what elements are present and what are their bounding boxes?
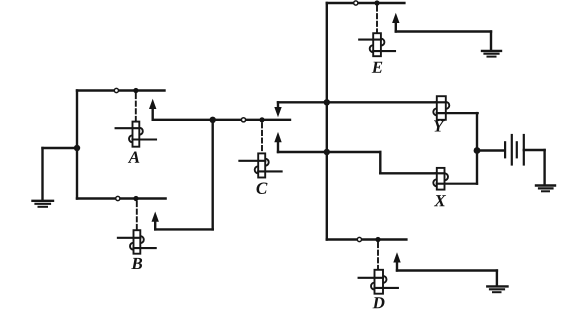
wire junction to X (476, 151, 478, 184)
contact A open circle (114, 88, 118, 92)
arrow A (up) (149, 99, 156, 120)
wire B branch right segment (121, 197, 166, 199)
wire A branch left segment (77, 89, 114, 91)
wire junction to battery (477, 149, 505, 151)
dashed link C (261, 123, 263, 153)
wire node to contact C (213, 119, 241, 121)
wire E branch right segment (359, 2, 405, 4)
wire B arrow horizontal (155, 228, 213, 230)
wire upper horizontal to trunk (278, 101, 437, 103)
contact D open circle (357, 237, 361, 241)
node junction mid (210, 117, 216, 123)
node D contact dot (375, 237, 380, 242)
ground top right (482, 51, 501, 57)
node junction trunk upper (324, 99, 330, 105)
arrow up from lower wire (274, 132, 281, 152)
node C contact dot (259, 117, 264, 122)
wire D branch right segment (362, 238, 406, 240)
node junction battery (474, 147, 481, 154)
wire mid vertical to B arrow (211, 120, 213, 230)
vertical trunk (326, 3, 328, 240)
arrow E (up) (392, 13, 399, 32)
node E contact dot (374, 0, 379, 5)
label Y (434, 120, 445, 131)
wire E arrow to ground (396, 30, 491, 32)
coil C (239, 153, 281, 177)
dashed link B (136, 202, 138, 230)
wire lower horizontal to step (278, 151, 380, 153)
label X (434, 195, 446, 206)
wire ground to node (43, 147, 78, 149)
node B contact dot (133, 196, 138, 201)
wire battery to ground (524, 149, 545, 151)
label C (257, 183, 268, 195)
coil B (118, 230, 156, 254)
node A contact dot (133, 88, 138, 93)
wire B branch left segment (77, 197, 115, 199)
node junction trunk lower (324, 149, 330, 155)
wire step to coil X (380, 172, 437, 174)
wire contact C right segment (246, 119, 290, 121)
arrow B (up) (152, 212, 159, 230)
wire left vertical trunk (76, 91, 78, 199)
label E (372, 62, 383, 73)
coil Y (433, 96, 477, 120)
wire D branch horizontal (327, 238, 357, 240)
arrow down to C wire (274, 102, 281, 117)
label A (128, 152, 140, 163)
coil E (359, 33, 395, 56)
contact C open circle (241, 118, 245, 122)
contact E open circle (354, 1, 358, 5)
node junction left (74, 145, 80, 151)
label D (373, 297, 385, 308)
label B (131, 258, 142, 269)
dashed link D (377, 243, 379, 270)
contact B open circle (116, 196, 120, 200)
dashed link A (135, 94, 137, 122)
coil X (433, 168, 477, 190)
wire step down (379, 152, 381, 173)
wire Y to junction (476, 113, 478, 150)
wire arrowA corner to node (153, 119, 213, 121)
dashed link E (376, 7, 378, 34)
wire D arrow to ground (397, 269, 497, 271)
coil D (359, 270, 398, 294)
ground left (33, 148, 54, 207)
ground bottom right (487, 286, 507, 292)
coil A (116, 122, 156, 147)
wire E branch left segment (327, 2, 353, 4)
battery (505, 135, 524, 165)
wire A branch right segment (119, 89, 164, 91)
arrow D (up) (393, 252, 400, 270)
ground battery right (536, 186, 555, 192)
